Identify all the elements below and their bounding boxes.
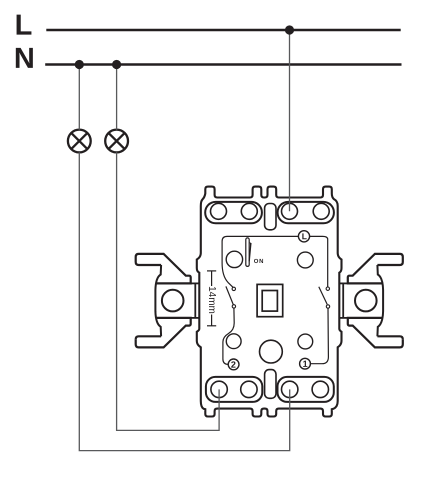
switch blade right <box>319 287 327 305</box>
lever <box>246 238 252 267</box>
lamp E2 <box>105 130 128 153</box>
terminal housing bottom-right <box>278 377 334 402</box>
claw right <box>340 254 403 348</box>
wire lamp E1 to switch bottom terminal 3 <box>79 152 289 450</box>
contact bottom-left <box>232 305 235 308</box>
svg-text:N: N <box>14 43 35 75</box>
contact top-right <box>326 287 329 290</box>
dimension 14mm <box>207 271 216 326</box>
terminal label L (circled) <box>298 231 309 242</box>
wire from L to switch top terminal <box>289 31 291 211</box>
contact L-pole top-left <box>232 287 235 290</box>
junction dot on L <box>285 25 294 34</box>
terminal housing bottom-left <box>206 377 262 402</box>
claw left <box>136 254 199 348</box>
slot bottom center <box>265 370 276 399</box>
svg-text:ON: ON <box>254 259 264 265</box>
junction dot N 1 <box>75 60 84 69</box>
wire L bus line <box>46 29 400 32</box>
junction dot N 2 <box>112 60 121 69</box>
internal wire right bottom to terminal 1 <box>310 308 328 364</box>
slot top center <box>265 204 276 230</box>
terminal screws top <box>211 203 330 219</box>
inner plate <box>222 236 328 287</box>
switch body outline <box>197 187 342 417</box>
center hole <box>260 340 283 363</box>
screw hole mid-right <box>298 334 313 349</box>
terminal housing top-left <box>205 202 262 223</box>
wire from N to lamp E2 <box>116 66 118 130</box>
wire N bus line <box>45 63 401 66</box>
terminal label 1 (circled) <box>300 358 311 369</box>
contact bottom-right <box>326 305 329 308</box>
internal wire left bottom to terminal 2 <box>223 308 234 364</box>
svg-text:2: 2 <box>231 360 236 370</box>
svg-text:14mm: 14mm <box>206 286 217 314</box>
screw hole mid-left <box>226 334 241 349</box>
wire from N to lamp E1 <box>78 66 80 130</box>
svg-text:L: L <box>302 231 307 241</box>
screw hole upper-left <box>226 251 242 267</box>
internal wire left top <box>222 263 233 287</box>
screw hole upper-right <box>297 252 313 268</box>
terminal screws bottom <box>211 381 329 397</box>
terminal label 2 (circled) <box>228 359 239 370</box>
wire lamp E2 to switch bottom terminal 1 <box>117 152 220 430</box>
svg-text:1: 1 <box>303 359 308 369</box>
lamp E1 <box>68 130 91 153</box>
svg-text:L: L <box>15 10 33 42</box>
rocker frame <box>257 284 283 316</box>
terminal housing top-right <box>278 202 334 223</box>
switch blade left <box>226 286 233 304</box>
